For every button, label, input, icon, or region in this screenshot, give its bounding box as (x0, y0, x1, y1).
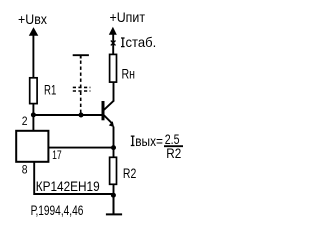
wire R2 to ground node (113, 185, 115, 197)
svg-text:R1: R1 (44, 82, 56, 98)
wire R1 to base bus (32, 104, 34, 117)
wire base bus (33, 114, 104, 116)
resistor R1 (30, 78, 37, 104)
svg-text:Rн: Rн (122, 66, 136, 82)
junction dashed branch node (79, 113, 84, 118)
Iстаб current marker x (111, 41, 116, 46)
+Uвх terminal arrow (29, 27, 39, 36)
dashed wire upper (80, 61, 82, 89)
base bar (102, 101, 105, 120)
wire +Uпит to Rн (112, 34, 114, 55)
svg-text:+Uвх: +Uвх (18, 11, 47, 27)
dashed wire lower (80, 92, 82, 114)
svg-text:17: 17 (52, 148, 62, 162)
resistor Rн (110, 54, 117, 82)
IC U1 КР142ЕН19 box (16, 131, 48, 162)
collector diagonal (104, 100, 114, 109)
svg-text:Р,1994,4,46: Р,1994,4,46 (31, 202, 84, 218)
svg-text:КР142ЕН19: КР142ЕН19 (36, 178, 100, 194)
wire Rн to collector (113, 82, 115, 102)
transistor VT1 (103, 100, 114, 127)
svg-text:R2: R2 (123, 165, 137, 181)
svg-text:R2: R2 (166, 145, 181, 161)
pin 2 lead (32, 115, 34, 131)
pin 8 lead (34, 162, 113, 194)
optional adjust terminal T-bar (73, 55, 89, 58)
dashed break mark upper (73, 86, 91, 88)
ground (106, 195, 122, 214)
formula fraction bar (164, 145, 183, 147)
emitter arrow (109, 121, 114, 127)
svg-text:+Uпит: +Uпит (110, 9, 146, 25)
svg-text:стаб.: стаб. (126, 34, 157, 50)
resistor R2 (110, 157, 117, 184)
junction R1/pin2 node (31, 112, 36, 117)
emitter diagonal (104, 115, 112, 123)
wire +Uвх to R1 (32, 35, 34, 78)
dashed break mark lower (73, 90, 91, 92)
wire pin17 to output node (49, 147, 114, 149)
svg-text:вых=: вых= (135, 133, 163, 149)
+Uпит terminal arrow (109, 27, 117, 35)
label Iстаб. serif I (121, 38, 125, 47)
junction ground node (111, 193, 116, 198)
wire emitter to output node (113, 127, 115, 149)
svg-text:8: 8 (22, 163, 28, 177)
formula Iвых serif I (131, 136, 135, 145)
junction emitter/R2 node (111, 145, 116, 150)
wire output node to R2 (113, 147, 115, 157)
svg-text:2: 2 (22, 114, 28, 128)
